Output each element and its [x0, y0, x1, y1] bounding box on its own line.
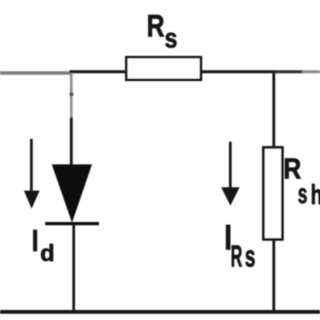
diode D1: anode triangle [52, 164, 92, 222]
svg-text:h: h [311, 179, 320, 210]
svg-text:s: s [245, 240, 256, 274]
wire: diode branch from node A down to anode [70, 73, 73, 166]
svg-text:s: s [298, 178, 308, 209]
svg-text:R: R [147, 7, 165, 43]
svg-text:d: d [40, 240, 54, 266]
wire: diode cathode to bottom rail [72, 224, 75, 312]
wire: Rsh to bottom rail [272, 238, 275, 312]
svg-text:R: R [231, 240, 243, 274]
current arrow IRs (shunt current, pointing down) [221, 142, 239, 206]
wire: top rail left (gray) from positive terminal to node A [0, 71, 70, 74]
wire: top rail right of node B (fading gray) [274, 70, 320, 73]
wire: bottom rail (negative) full width [0, 310, 320, 314]
resistor Rsh body (vertical) [263, 147, 282, 239]
node: junction dot on diode branch [69, 92, 73, 96]
resistor Rs body [126, 57, 201, 80]
svg-text:I: I [32, 223, 39, 257]
current arrow Id (diode current, pointing down) [24, 139, 40, 209]
wire: right branch from node B down to Rsh [272, 73, 275, 150]
diode D1: cathode bar [45, 222, 99, 225]
wire: resistor Rs to node B [200, 70, 276, 73]
wire: top rail from node A to resistor Rs [70, 70, 128, 73]
svg-text:s: s [165, 24, 178, 55]
